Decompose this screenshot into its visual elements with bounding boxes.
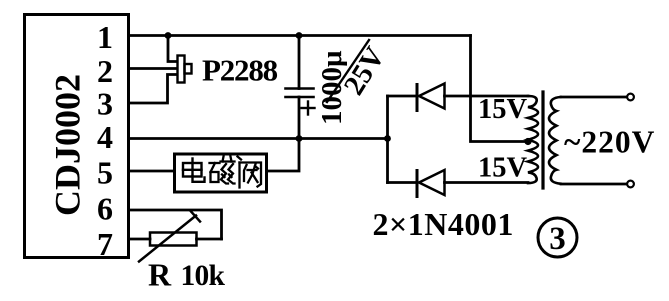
wire pin6 lead <box>129 210 222 239</box>
svg-text:15V: 15V <box>478 94 528 125</box>
svg-text:10k: 10k <box>181 260 226 292</box>
svg-text:~220V: ~220V <box>564 125 655 160</box>
svg-text:5: 5 <box>97 155 113 191</box>
terminal circle bottom <box>627 181 634 188</box>
svg-text:P2288: P2288 <box>202 52 278 87</box>
svg-text:2×1N4001: 2×1N4001 <box>373 206 514 242</box>
capacitor C1 bottom plate <box>286 96 314 99</box>
svg-text:3: 3 <box>97 86 113 122</box>
wire pin7 lead <box>129 238 151 241</box>
svg-text:1: 1 <box>97 19 113 55</box>
node junction dot piezo tap <box>165 32 172 39</box>
wire diode common vertical <box>386 96 389 183</box>
wire pin1 top rail <box>129 34 471 37</box>
wire pin4 rail <box>129 137 388 140</box>
wire capacitor top lead <box>298 36 301 89</box>
wire pin2 lead <box>129 67 177 70</box>
node junction dot cap top <box>296 32 303 39</box>
wire primary top terminal <box>561 96 627 99</box>
wire capacitor bottom lead to valve <box>268 97 300 171</box>
wire pin5 lead <box>129 170 174 173</box>
capacitor value slash <box>327 40 369 102</box>
svg-text:6: 6 <box>97 191 113 227</box>
svg-text:2: 2 <box>97 53 113 89</box>
diode D1 cathode bar <box>416 85 419 111</box>
capacitor C1 top plate <box>286 87 314 90</box>
wire center-tap vertical drop <box>471 36 528 142</box>
op-amp U1 CDJ0002 IC box <box>25 15 129 258</box>
wire primary bottom terminal <box>561 183 627 186</box>
diode D1 triangle <box>419 84 445 109</box>
wire upper diode to transformer <box>445 95 529 98</box>
wire lower diode to transformer <box>445 181 529 184</box>
piezo resonator P2288 body <box>178 56 185 83</box>
svg-text:15V: 15V <box>478 153 528 184</box>
resistor R adjustable arrow <box>139 216 196 262</box>
solenoid valve box <box>175 154 267 192</box>
resistor R arrow tick <box>191 212 200 222</box>
transformer T1 core <box>541 92 544 188</box>
wire resistor right link <box>197 238 222 241</box>
wire pin3 lead <box>129 75 177 104</box>
svg-text:3: 3 <box>549 221 566 257</box>
svg-text:CDJ0002: CDJ0002 <box>48 74 88 216</box>
terminal circle top <box>627 94 634 101</box>
solenoid valve glyph fa <box>238 157 262 188</box>
figure number circle 3 <box>538 218 577 257</box>
diode D2 cathode bar <box>416 171 419 197</box>
solenoid valve glyph dian <box>183 159 205 182</box>
piezo resonator P2288 side electrode <box>185 64 192 74</box>
svg-text:R: R <box>148 257 172 293</box>
node junction dot diode common <box>384 135 391 142</box>
wire lower diode anode lead <box>388 181 417 184</box>
diode D2 triangle <box>419 170 445 195</box>
node junction dot center tap <box>524 138 531 145</box>
svg-text:7: 7 <box>97 226 113 262</box>
svg-text:4: 4 <box>97 119 113 155</box>
wire upper diode anode lead <box>388 95 417 98</box>
capacitor C1 polarity plus <box>302 102 315 115</box>
node junction dot cap bottom / valve <box>296 135 303 142</box>
transformer T1 primary winding <box>549 97 561 184</box>
wire piezo top lead <box>168 36 177 62</box>
solenoid valve glyph ci <box>210 157 235 184</box>
transformer T1 secondary winding <box>528 96 538 183</box>
resistor R body <box>150 233 197 246</box>
